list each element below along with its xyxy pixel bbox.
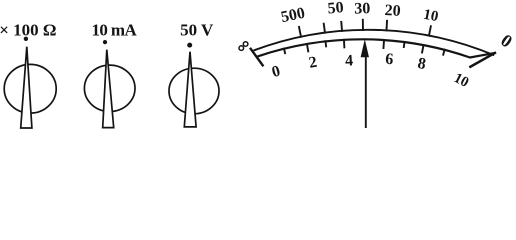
index dot x100ohm [24,37,28,41]
ohm scale tick -11.8deg [299,26,301,38]
svg-text:0: 0 [497,30,516,52]
ohm scale tick -4.6deg [340,21,343,32]
svg-text:0: 0 [270,63,282,81]
svg-text:20: 20 [384,2,401,20]
linear scale tick 14.5deg [443,49,445,56]
needle arrowhead [361,39,369,57]
svg-text:10: 10 [422,7,440,26]
knob pointer x100ohm [21,47,32,128]
knob pointer 50V [184,52,196,127]
linear scale tick -6.4deg [324,40,327,47]
scale outer arc [254,30,495,55]
ohm scale tick -0.9deg [362,19,364,31]
knob pointer 10mA [103,50,114,128]
knob circle x100ohm [4,64,56,113]
infinity mark (ohm scale end) [239,46,244,51]
linear scale tick 10.8deg [422,44,424,53]
linear scale tick 3.8deg [382,39,385,49]
index dot 50V [187,43,192,48]
right end stroke at 10 mark [469,52,496,67]
svg-text:× 100 Ω: × 100 Ω [0,20,57,39]
svg-text:10 mA: 10 mA [91,20,137,39]
svg-text:8: 8 [416,55,427,73]
svg-text:30: 30 [354,0,370,17]
ohm scale tick -7.6deg [324,23,326,34]
linear scale tick -13.7deg [284,48,286,54]
index dot 10mA [103,40,107,44]
knob circle 10mA [84,65,135,111]
needle shaft [365,55,367,128]
svg-text:6: 6 [385,51,394,68]
linear scale tick -3.2deg [343,39,346,49]
svg-text:500: 500 [279,5,306,27]
knob circle 50V [169,68,219,114]
left end stroke at infinity mark [250,48,263,67]
scale inner arc [258,39,496,57]
svg-text:4: 4 [345,52,354,69]
ohm scale tick 10.8deg [429,25,431,36]
svg-text:50: 50 [327,0,344,17]
linear scale tick -9.7deg [307,43,309,52]
ohm scale tick 3.3deg [385,20,388,32]
svg-text:2: 2 [308,54,319,72]
svg-text:50 V: 50 V [180,20,214,39]
svg-text:10: 10 [451,70,471,91]
linear scale tick 7.4deg [403,41,406,48]
